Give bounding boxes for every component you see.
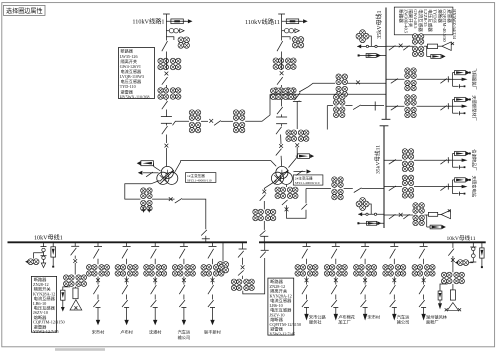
disconnector bbox=[390, 285, 396, 294]
connector wire bbox=[448, 100, 452, 114]
wire bbox=[424, 45, 427, 47]
connector wire bbox=[448, 73, 452, 87]
35kV row from T1 wire bbox=[270, 93, 296, 95]
disconnector bbox=[391, 106, 398, 111]
svg-text:GW4-40.5: GW4-40.5 bbox=[413, 9, 418, 29]
breaker X mark bbox=[280, 71, 284, 75]
current transformer cluster 35kV row T1 bbox=[270, 88, 294, 100]
disconnector bbox=[361, 285, 367, 294]
wire bbox=[97, 276, 99, 284]
wire bbox=[165, 148, 167, 167]
breaker X mark bbox=[96, 278, 100, 282]
wire bbox=[417, 78, 451, 80]
disconnector QS11 bbox=[162, 41, 168, 51]
wire bbox=[165, 85, 167, 88]
bus2 arrester branch right bbox=[427, 215, 446, 229]
voltage transformer cluster bbox=[217, 262, 228, 273]
disconnector bbox=[391, 79, 398, 84]
wire bbox=[183, 276, 185, 284]
disconnector bbox=[389, 46, 396, 51]
svg-text:宋市村: 宋市村 bbox=[92, 328, 105, 335]
disconnector QS22 bbox=[277, 77, 283, 85]
breaker X mark bbox=[399, 213, 403, 217]
wire bbox=[165, 52, 167, 59]
wire bbox=[335, 308, 337, 315]
drawout contact bbox=[202, 238, 210, 240]
wire bbox=[335, 276, 337, 284]
transformer T1 bbox=[157, 166, 178, 184]
10kV feeder wire bbox=[123, 242, 131, 246]
disconnector bbox=[389, 160, 396, 165]
PT bend wire bbox=[469, 262, 474, 264]
transformer T2 10kV lead bbox=[264, 181, 276, 191]
drawout contact upper bbox=[276, 114, 287, 117]
wire bbox=[165, 14, 167, 41]
wire bbox=[298, 100, 300, 103]
current transformer cluster T1 10kV bbox=[141, 188, 153, 212]
wire bbox=[424, 214, 428, 216]
35kV feeder row wire bbox=[384, 159, 402, 161]
wire bbox=[289, 147, 298, 168]
10kV feeder wire bbox=[180, 242, 188, 246]
disconnector QS23 bbox=[277, 107, 283, 114]
terminal box with arrow bbox=[453, 151, 471, 155]
breaker X mark bbox=[356, 81, 360, 85]
arrester sub-branch bbox=[61, 287, 70, 312]
breaker X mark bbox=[182, 278, 186, 282]
wire bbox=[414, 186, 451, 188]
label 湖州镇风林 bbox=[426, 313, 448, 325]
bus2 PT branch wire bbox=[358, 213, 384, 215]
svg-text:HY5WZ-54/134: HY5WZ-54/134 bbox=[452, 9, 457, 39]
breaker X mark bbox=[209, 119, 213, 123]
disconnector bbox=[260, 195, 266, 201]
arrester sub-branch bbox=[438, 284, 448, 309]
equipment list box 10kV section 2 bbox=[268, 278, 301, 336]
wire bbox=[74, 287, 76, 288]
wire bbox=[242, 276, 244, 279]
disconnector incomer 2 bbox=[260, 231, 266, 236]
wire bbox=[74, 263, 76, 275]
wire bbox=[348, 82, 387, 84]
wire bbox=[126, 276, 128, 284]
breaker X mark bbox=[334, 278, 338, 282]
wire bbox=[335, 295, 337, 300]
svg-text:伯谢物品厂: 伯谢物品厂 bbox=[471, 149, 478, 171]
wire bbox=[393, 295, 395, 300]
breaker X mark bbox=[363, 278, 367, 282]
current transformer cluster bbox=[158, 58, 182, 70]
svg-text:Y5W2-12.7/45: Y5W2-12.7/45 bbox=[270, 331, 296, 336]
current transformer cluster bus tie bbox=[231, 279, 255, 290]
disconnector bbox=[354, 188, 362, 193]
drawout contact bbox=[124, 307, 129, 309]
35kV link row wire bbox=[327, 105, 333, 107]
disconnector bbox=[71, 248, 77, 255]
breaker X mark bbox=[295, 143, 299, 147]
breaker X mark bbox=[422, 278, 426, 282]
disconnector + arrow branch bbox=[138, 171, 159, 177]
breaker X mark bbox=[399, 44, 403, 48]
disconnector bbox=[389, 186, 396, 191]
bus PT branch left corner bbox=[41, 242, 47, 267]
breaker X mark bbox=[241, 265, 245, 269]
wire bbox=[423, 276, 425, 284]
delta winding grounding 1 bbox=[70, 300, 82, 310]
svg-text:沈滩村: 沈滩村 bbox=[149, 328, 162, 335]
resistor box bbox=[428, 212, 437, 216]
disconnector incomer 1 bbox=[201, 230, 207, 236]
disconnector bbox=[208, 285, 214, 294]
wire bbox=[423, 308, 425, 315]
svg-text:选择圈边属性: 选择圈边属性 bbox=[6, 7, 43, 15]
current transformer cluster bbox=[402, 175, 414, 199]
drawout contact bbox=[96, 307, 101, 309]
110kV bypass wire between transformers bbox=[175, 161, 277, 173]
wire bbox=[97, 259, 99, 265]
drawout contact lower bbox=[276, 124, 287, 126]
bus2 station row wire bbox=[384, 214, 413, 216]
disconnector bbox=[302, 300, 308, 307]
reserve stub bbox=[453, 84, 466, 88]
10kV feeder wire bbox=[303, 242, 311, 246]
grounding transformer feeder left bbox=[71, 242, 79, 246]
voltage transformer group bbox=[282, 37, 304, 48]
svg-text:输公司: 输公司 bbox=[397, 319, 410, 326]
svg-text:HY5WX-110/268: HY5WX-110/268 bbox=[120, 94, 150, 99]
wire bbox=[452, 256, 454, 272]
disconnector bbox=[208, 249, 214, 259]
wire bbox=[205, 239, 207, 242]
connector wire bbox=[448, 180, 452, 194]
wire bbox=[280, 156, 283, 167]
wire bbox=[126, 295, 128, 300]
wire bbox=[306, 308, 308, 315]
disconnector bbox=[331, 249, 337, 259]
disconnector bbox=[122, 300, 128, 307]
breaker X mark bbox=[279, 144, 283, 148]
disconnector bbox=[440, 79, 447, 84]
wire bbox=[182, 199, 206, 229]
10kV feeder wire bbox=[94, 242, 102, 246]
wire bbox=[423, 259, 425, 265]
svg-text:加工厂: 加工厂 bbox=[338, 319, 351, 326]
current transformer cluster bus2 row bbox=[332, 177, 344, 201]
current transformer cluster bbox=[353, 265, 377, 277]
current transformer cluster bbox=[402, 148, 414, 172]
wire bbox=[205, 236, 207, 239]
wire bbox=[281, 52, 283, 58]
wire bbox=[281, 14, 283, 41]
load arrow bbox=[124, 320, 128, 325]
breaker X mark bbox=[211, 278, 215, 282]
breaker X mark bbox=[165, 72, 169, 76]
label 联丰新村 bbox=[204, 328, 222, 335]
disconnector bbox=[389, 214, 396, 219]
wire bbox=[414, 159, 451, 161]
drawout contact bbox=[261, 249, 269, 251]
delta winding bbox=[438, 210, 451, 219]
disconnector QS21 bbox=[277, 41, 283, 51]
grounding transformer feeder right bbox=[452, 242, 454, 248]
link riser wire bbox=[326, 106, 328, 130]
10kV bus 1 bbox=[8, 241, 248, 243]
svg-text:天德塑型材厂: 天德塑型材厂 bbox=[471, 95, 478, 121]
wire bbox=[165, 135, 167, 144]
arrow bbox=[358, 212, 362, 216]
label 汽车运 bbox=[178, 328, 191, 341]
fuse bbox=[73, 288, 78, 299]
current transformer cluster T2 35kV bbox=[275, 187, 299, 199]
wire bbox=[345, 105, 352, 107]
wire bbox=[152, 198, 175, 200]
load arrow bbox=[153, 320, 157, 325]
transformer T2 bbox=[271, 166, 292, 184]
delta winding bbox=[438, 42, 452, 51]
wire bbox=[165, 58, 167, 70]
svg-text:飞翔服装厂: 飞翔服装厂 bbox=[471, 68, 478, 90]
disconnector bbox=[361, 300, 367, 307]
disconnector bbox=[331, 285, 337, 294]
wire bbox=[393, 308, 395, 315]
terminal tick 110kV line 11 bbox=[278, 13, 285, 15]
wire bbox=[97, 295, 99, 300]
breaker X mark bbox=[451, 258, 455, 262]
disconnector bbox=[302, 249, 308, 259]
35kV feeder row wire bbox=[386, 78, 405, 80]
bus1 arrester branch right bbox=[427, 46, 446, 58]
breaker X mark bbox=[125, 278, 129, 282]
label 宋市公路 bbox=[309, 313, 327, 325]
wire bbox=[280, 135, 282, 145]
disconnector bbox=[301, 204, 307, 210]
current transformer cluster bbox=[115, 265, 139, 277]
disconnector bbox=[353, 105, 361, 110]
disconnector bbox=[361, 249, 367, 259]
svg-text:SFZ11-40000/110: SFZ11-40000/110 bbox=[187, 178, 212, 182]
disconnector bbox=[440, 186, 447, 191]
wire riser to 35kV row bbox=[245, 94, 270, 121]
reserve stub bbox=[453, 111, 466, 115]
drawout bar near bus bbox=[374, 102, 376, 111]
current transformer cluster incomer 2 bbox=[253, 209, 277, 221]
svg-text:SFZ11-40000/110: SFZ11-40000/110 bbox=[295, 181, 320, 185]
drawout contact bbox=[153, 307, 158, 309]
wire bbox=[201, 120, 208, 122]
disconnector bbox=[260, 252, 266, 258]
load arrow bbox=[182, 320, 186, 325]
35kV feeder row wire bbox=[386, 105, 405, 107]
10kV feeder wire bbox=[209, 242, 217, 246]
wire bbox=[97, 308, 99, 321]
10kV feeder wire bbox=[151, 242, 159, 246]
x marks bbox=[74, 306, 77, 309]
wire bbox=[154, 259, 156, 265]
disconnector bbox=[214, 121, 221, 126]
drawout bar bbox=[447, 76, 449, 82]
transformer T1 10kV lead bbox=[125, 181, 160, 200]
10kV feeder wire bbox=[361, 242, 369, 246]
drawout contact bbox=[260, 235, 268, 237]
svg-text:宋市村: 宋市村 bbox=[368, 313, 381, 320]
terminal box with arrow bbox=[453, 97, 471, 101]
current transformer cluster grounding 1 bbox=[63, 275, 87, 287]
bus tie left leg wire bbox=[242, 242, 244, 249]
wire bbox=[221, 120, 233, 122]
current transformer cluster bbox=[172, 265, 196, 277]
fuse branch of transformer 2 bbox=[296, 154, 314, 159]
drawout contact bbox=[304, 307, 309, 309]
wire bbox=[165, 99, 167, 101]
wire bbox=[183, 295, 185, 300]
fuse + arrow branch bbox=[166, 19, 192, 24]
current transformer cluster row1b bbox=[233, 110, 245, 134]
disconnector bbox=[93, 285, 99, 294]
disconnector bbox=[93, 249, 99, 259]
wire bbox=[281, 100, 283, 107]
wire bbox=[74, 256, 76, 259]
feeder arrow bbox=[453, 185, 468, 188]
10kV feeder wire bbox=[390, 242, 398, 246]
wire bbox=[212, 308, 214, 321]
disconnector QS14 bbox=[162, 126, 168, 134]
wire bbox=[212, 276, 214, 284]
drawout contact bbox=[239, 248, 247, 250]
breaker X mark bbox=[285, 207, 289, 211]
x marks bbox=[448, 209, 451, 212]
button 选择圈边属性 bbox=[4, 5, 46, 15]
disconnector bbox=[302, 285, 308, 294]
terminal box with arrow bbox=[453, 70, 471, 74]
svg-text:CQPJTM-40.5/50: CQPJTM-40.5/50 bbox=[442, 9, 447, 42]
svg-text:输公司: 输公司 bbox=[178, 334, 191, 341]
load arrow bbox=[334, 314, 338, 321]
bypass tap row wire bbox=[173, 121, 190, 125]
wire bbox=[263, 201, 265, 209]
disconnector bbox=[419, 285, 425, 294]
svg-text:服务社: 服务社 bbox=[309, 319, 322, 326]
svg-text:2#主变压器: 2#主变压器 bbox=[295, 175, 313, 180]
bus1 arrester branch left bbox=[358, 54, 386, 58]
load arrow bbox=[96, 320, 100, 325]
wire bbox=[364, 308, 366, 315]
wire bbox=[393, 259, 395, 265]
load arrow bbox=[363, 314, 367, 321]
disconnector bbox=[238, 270, 244, 275]
breaker X mark bbox=[165, 144, 169, 148]
svg-text:10kV母线1: 10kV母线1 bbox=[34, 234, 63, 242]
wire bbox=[126, 308, 128, 321]
bus1 PT branch wire bbox=[357, 45, 386, 47]
disconnector bbox=[403, 214, 409, 219]
terminal box with arrow bbox=[453, 178, 471, 182]
label 沈滩村 bbox=[149, 328, 162, 335]
disconnector bbox=[151, 285, 157, 294]
wire bbox=[154, 276, 156, 284]
load arrow bbox=[392, 314, 396, 321]
equipment list box 35kV (vertical) bbox=[394, 7, 457, 42]
drawout contact upper bbox=[161, 110, 172, 117]
fuse branch of transformer 1 bbox=[137, 161, 161, 171]
disconnector bbox=[122, 249, 128, 259]
wire bbox=[183, 308, 185, 321]
disconnector bbox=[448, 249, 454, 256]
35kV bus 2 bbox=[383, 126, 385, 228]
wire bbox=[263, 221, 265, 230]
wire bbox=[212, 295, 214, 300]
disconnector bbox=[179, 249, 185, 259]
disconnector bbox=[295, 93, 301, 101]
current transformer cluster bbox=[201, 265, 225, 277]
disconnector bbox=[208, 300, 214, 307]
equipment list box 10kV section 1 bbox=[31, 276, 64, 334]
disconnector QS25 bbox=[276, 149, 282, 156]
wire bbox=[306, 276, 308, 284]
transformer T2 path B drawout bar bbox=[293, 100, 302, 102]
bus PT branch right corner bbox=[470, 242, 476, 262]
current transformer cluster link row bbox=[333, 94, 344, 118]
current transformer cluster bbox=[86, 265, 110, 277]
35kV bus2 left feeder row wire bbox=[306, 188, 331, 190]
wire bbox=[305, 189, 307, 204]
wire bbox=[126, 259, 128, 265]
wire bbox=[306, 295, 308, 300]
current transformer cluster T2 110kV bbox=[286, 130, 310, 142]
svg-text:10kV母线11: 10kV母线11 bbox=[447, 234, 476, 242]
delta winding grounding 2 bbox=[447, 303, 458, 311]
reserve stub bbox=[453, 192, 466, 196]
current transformer cluster bbox=[412, 265, 436, 277]
disconnector bbox=[390, 249, 396, 259]
disconnector bbox=[93, 300, 99, 307]
10kV feeder wire bbox=[332, 242, 340, 246]
voltage transformer 10kV-1 bbox=[25, 259, 39, 265]
disconnector bbox=[179, 285, 185, 294]
svg-text:1#主变压器: 1#主变压器 bbox=[187, 173, 205, 178]
current transformer cluster grounding 2 bbox=[441, 272, 465, 284]
equipment list box 110kV bbox=[119, 48, 155, 100]
disconnector QS24 bbox=[276, 127, 282, 135]
wire bbox=[361, 105, 384, 107]
svg-text:110kV线路11: 110kV线路11 bbox=[245, 18, 280, 26]
wire bbox=[335, 259, 337, 265]
current transformer cluster bbox=[158, 88, 182, 100]
wire bbox=[364, 259, 366, 265]
wire bbox=[452, 284, 454, 290]
current transformer cluster bbox=[273, 88, 297, 100]
svg-text:110kV线路1: 110kV线路1 bbox=[132, 18, 164, 26]
wire bbox=[154, 308, 156, 321]
metering branch bbox=[282, 28, 300, 33]
breaker X mark bbox=[153, 278, 157, 282]
bus2 top bar bbox=[380, 125, 389, 127]
disconnector bbox=[390, 300, 396, 307]
svg-text:面粉厂: 面粉厂 bbox=[426, 319, 439, 326]
disconnector bbox=[179, 300, 185, 307]
current transformer cluster bbox=[143, 265, 167, 277]
drawout contact bbox=[392, 307, 397, 309]
fuse + arrow branch bbox=[282, 19, 308, 24]
current transformer cluster row1a bbox=[189, 110, 201, 134]
wire bbox=[183, 259, 185, 265]
label 卢布棉花 bbox=[338, 313, 355, 325]
drawout contact lower bbox=[161, 123, 172, 125]
label 宋市村 bbox=[368, 313, 381, 320]
35kV feeder row wire bbox=[384, 186, 402, 188]
wire bbox=[281, 85, 283, 87]
current transformer cluster bbox=[405, 94, 417, 118]
breaker X mark bbox=[392, 278, 396, 282]
